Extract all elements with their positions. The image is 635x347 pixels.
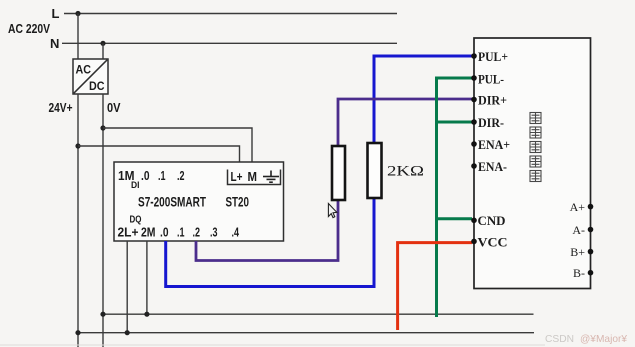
svg-text:.2: .2 bbox=[177, 168, 185, 183]
svg-text:PUL+: PUL+ bbox=[478, 49, 508, 64]
svg-text:@¥Major¥: @¥Major¥ bbox=[580, 333, 627, 345]
label 步进驱动器 vertical bbox=[530, 113, 541, 182]
svg-text:S7-200SMART: S7-200SMART bbox=[138, 194, 206, 210]
wire N drop to converter bbox=[102, 43, 104, 59]
svg-text:DC: DC bbox=[89, 79, 105, 93]
resistor R2 bbox=[368, 143, 382, 198]
pin ENA+ bbox=[471, 141, 477, 147]
junction 0V to M tap bbox=[100, 125, 105, 130]
svg-text:M: M bbox=[248, 169, 258, 184]
svg-text:N: N bbox=[50, 36, 59, 51]
svg-text:VCC: VCC bbox=[478, 234, 508, 249]
bottom frame line bbox=[0, 344, 545, 346]
svg-text:PUL-: PUL- bbox=[478, 71, 504, 86]
stepper driver U3 box bbox=[474, 38, 591, 289]
svg-text:.1: .1 bbox=[177, 225, 185, 240]
wire 2L+ down bbox=[126, 241, 128, 333]
svg-text:0V: 0V bbox=[107, 101, 121, 115]
svg-text:A+: A+ bbox=[570, 200, 586, 214]
wire 0V to PLC M bbox=[103, 128, 252, 162]
bottom bus line A (0V) bbox=[103, 313, 534, 315]
svg-text:2L+: 2L+ bbox=[118, 225, 139, 240]
svg-text:AC: AC bbox=[76, 63, 92, 77]
svg-text:ENA+: ENA+ bbox=[478, 137, 510, 152]
svg-text:.0: .0 bbox=[141, 168, 150, 183]
svg-text:DI: DI bbox=[131, 180, 140, 191]
resistor R1 bbox=[332, 146, 345, 200]
junction line B / 2L+ bbox=[125, 330, 130, 335]
svg-text:L+: L+ bbox=[231, 169, 243, 184]
pin PUL+ bbox=[471, 53, 477, 59]
svg-text:.3: .3 bbox=[210, 225, 218, 240]
wire 2M down bbox=[146, 241, 148, 314]
ground symbol bbox=[263, 171, 279, 183]
wire L rail bbox=[64, 13, 397, 15]
L+ M terminal box bbox=[228, 170, 281, 185]
svg-text:.0: .0 bbox=[160, 225, 169, 240]
mouse cursor bbox=[328, 204, 336, 218]
pin A+ bbox=[588, 204, 594, 210]
wire red VCC supply bbox=[398, 243, 472, 330]
svg-text:CND: CND bbox=[478, 213, 506, 228]
wire blue Q0.0 to PUL+ bbox=[166, 198, 374, 287]
wire N rail bbox=[62, 42, 397, 44]
PLC U2 S7-200SMART box bbox=[114, 162, 284, 241]
junction line A / 2M bbox=[144, 312, 149, 317]
svg-text:B-: B- bbox=[573, 266, 585, 280]
junction on N rail bbox=[100, 41, 105, 46]
wire L drop to converter bbox=[77, 14, 79, 60]
pin DIR- bbox=[471, 119, 477, 125]
svg-text:A-: A- bbox=[572, 223, 585, 237]
wire 0V rail vertical bbox=[102, 94, 104, 347]
junction on L rail bbox=[75, 11, 80, 16]
wire 24V+ to PLC L+ bbox=[78, 146, 240, 162]
junction line A / 0V bbox=[100, 312, 105, 317]
pin DIR+ bbox=[471, 97, 477, 103]
junction line B / 24V+ bbox=[75, 330, 80, 335]
pin PUL- bbox=[471, 75, 477, 81]
svg-text:2M: 2M bbox=[141, 225, 156, 240]
svg-text:CSDN: CSDN bbox=[545, 333, 574, 345]
svg-text:DIR+: DIR+ bbox=[478, 93, 507, 108]
svg-text:ENA-: ENA- bbox=[478, 159, 507, 174]
svg-text:B+: B+ bbox=[570, 245, 585, 259]
svg-text:ST20: ST20 bbox=[226, 194, 250, 210]
svg-text:24V+: 24V+ bbox=[49, 101, 73, 115]
svg-text:2KΩ: 2KΩ bbox=[387, 164, 424, 180]
bottom bus line B (24V) bbox=[78, 332, 534, 334]
pin B+ bbox=[588, 249, 594, 255]
pin VCC bbox=[471, 239, 477, 245]
pin B- bbox=[588, 270, 594, 276]
svg-text:AC 220V: AC 220V bbox=[8, 22, 51, 36]
pin A- bbox=[588, 227, 594, 233]
svg-text:.4: .4 bbox=[232, 225, 240, 240]
svg-text:.2: .2 bbox=[193, 225, 201, 240]
svg-text:DIR-: DIR- bbox=[478, 115, 504, 130]
svg-text:L: L bbox=[52, 6, 60, 21]
wire 24V+ rail vertical bbox=[77, 94, 79, 347]
AC/DC converter U1 bbox=[73, 59, 108, 94]
svg-text:.1: .1 bbox=[158, 168, 166, 183]
junction 24V+ to L+ tap bbox=[75, 143, 80, 148]
pin ENA- bbox=[471, 163, 477, 169]
wire green common PUL-/DIR-/CND bbox=[437, 78, 473, 317]
pin CND bbox=[471, 218, 477, 224]
wire purple Q0.2 to DIR+ bbox=[196, 200, 338, 261]
